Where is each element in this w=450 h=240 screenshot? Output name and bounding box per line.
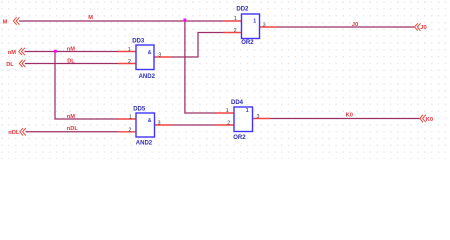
pin stub DD4 pin 1	[216, 112, 234, 114]
pin stub DD2 pin 2	[224, 32, 242, 34]
pin stub DD3 pin 1	[118, 51, 136, 53]
svg-text:K0: K0	[346, 113, 353, 119]
svg-text:DD3: DD3	[132, 39, 145, 45]
svg-text:J0: J0	[352, 22, 358, 28]
svg-text:DD5: DD5	[133, 107, 146, 113]
port nDL chevron	[20, 128, 26, 135]
svg-text:1: 1	[234, 16, 237, 22]
wire net DL	[25, 63, 118, 65]
svg-text:OR2: OR2	[233, 135, 246, 141]
pin stub DD4 pin 3 output	[253, 118, 271, 120]
wire DD5 out to DD4 pin 2	[173, 124, 217, 126]
pin stub DD5 pin 3 output	[155, 124, 173, 126]
port K0 chevron	[420, 115, 426, 122]
port M chevron	[13, 17, 19, 24]
svg-text:1: 1	[246, 108, 249, 114]
svg-text:AND2: AND2	[139, 74, 156, 80]
pin stub DD3 pin 2	[118, 63, 136, 65]
wire DD3 out to DD2 pin 2	[172, 33, 224, 58]
pin stub DD4 pin 2	[216, 124, 234, 126]
pin stub DD2 pin 1	[224, 20, 242, 22]
svg-text:2: 2	[234, 28, 237, 34]
svg-text:nM: nM	[67, 46, 75, 52]
svg-text:AND2: AND2	[136, 141, 153, 147]
junction node M	[183, 19, 186, 22]
svg-text:nM: nM	[8, 50, 16, 56]
svg-text:J0: J0	[420, 25, 426, 31]
pin stub DD5 pin 2	[118, 131, 136, 133]
wire net M horizontal	[19, 20, 224, 22]
gate DD4 OR2 box	[234, 107, 253, 132]
gate DD2 OR2 box	[242, 14, 260, 39]
wire net J0	[278, 26, 415, 28]
svg-text:1: 1	[128, 47, 131, 53]
svg-text:3: 3	[158, 53, 161, 59]
pin stub DD2 pin 3 output	[260, 26, 278, 28]
svg-text:DL: DL	[6, 62, 14, 68]
svg-text:M: M	[3, 19, 8, 25]
svg-text:2: 2	[227, 121, 230, 127]
gate DD3 AND2 box	[136, 45, 154, 70]
svg-text:K0: K0	[426, 117, 433, 123]
wire net nM	[25, 51, 119, 53]
wire vertical nM to DD5	[55, 52, 118, 120]
svg-text:1: 1	[253, 19, 256, 25]
svg-text:1: 1	[226, 108, 229, 114]
junction node nM	[54, 50, 57, 53]
svg-text:2: 2	[128, 59, 131, 65]
svg-text:DD2: DD2	[236, 6, 249, 12]
wire net nDL	[26, 131, 119, 133]
port DL chevron	[19, 60, 25, 67]
svg-text:3: 3	[263, 22, 266, 28]
svg-text:&: &	[148, 50, 152, 56]
svg-text:nM: nM	[67, 114, 75, 120]
svg-text:3: 3	[257, 114, 260, 120]
pin stub DD5 pin 1	[118, 118, 136, 120]
svg-text:OR2: OR2	[241, 40, 254, 46]
port nM chevron	[19, 48, 25, 55]
svg-text:3: 3	[158, 121, 161, 127]
pin stub DD3 pin 3 output	[154, 56, 172, 58]
svg-text:2: 2	[129, 128, 132, 134]
port J0 chevron	[415, 23, 421, 30]
svg-text:1: 1	[129, 114, 132, 120]
wire net K0	[271, 118, 420, 120]
gate DD5 AND2 box	[136, 113, 155, 137]
svg-text:nDL: nDL	[67, 126, 79, 132]
svg-text:M: M	[88, 15, 93, 21]
wire vertical M to DD4	[185, 21, 216, 113]
svg-text:nDL: nDL	[8, 130, 20, 136]
svg-text:&: &	[148, 118, 152, 124]
svg-text:DL: DL	[67, 59, 75, 65]
svg-text:DD4: DD4	[231, 100, 244, 106]
